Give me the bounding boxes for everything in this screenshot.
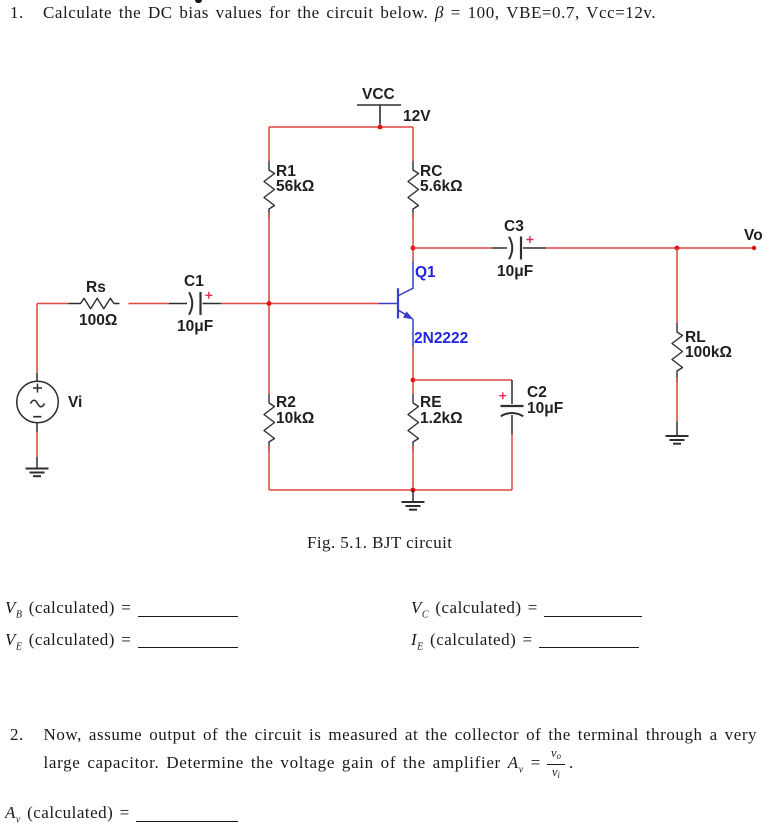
designator Q1	[415, 264, 436, 281]
wire source to Rs	[37, 303, 69, 305]
node VCC junction	[378, 125, 383, 130]
svg-text:RE: RE	[420, 394, 442, 411]
svg-text:100kΩ: 100kΩ	[685, 344, 732, 361]
designator RL	[685, 329, 706, 346]
node bottom junction	[411, 488, 416, 493]
value 100Ω	[79, 312, 117, 329]
svg-text:Rs: Rs	[86, 279, 106, 296]
svg-text:Q1: Q1	[415, 264, 436, 281]
transistor Q1	[379, 261, 413, 347]
value 100kΩ	[685, 344, 732, 361]
value 5.6kΩ	[420, 178, 463, 195]
capacitor C1	[169, 292, 221, 315]
answer row 2 left	[5, 630, 238, 657]
wire bottom rail	[269, 489, 512, 491]
power symbol VCC	[357, 105, 401, 124]
wire output rail right	[546, 247, 754, 249]
ground RL	[666, 422, 689, 444]
resistor R2	[264, 394, 275, 451]
wire output rail left	[413, 247, 492, 249]
resistor Rs	[69, 298, 120, 308]
question 2 text line 2	[44, 753, 542, 780]
node RL junction	[675, 246, 680, 251]
capacitor C3	[492, 237, 546, 260]
svg-text:10μF: 10μF	[497, 263, 533, 280]
polarity + of C3	[527, 236, 534, 243]
wire VCC drop	[379, 124, 381, 127]
wire RC to collector	[412, 213, 414, 261]
svg-text:56kΩ: 56kΩ	[276, 178, 314, 195]
resistor R1	[264, 161, 275, 218]
wire RL upper	[676, 248, 678, 323]
resistor RL	[672, 323, 683, 383]
designator C1	[184, 273, 204, 290]
wire left branch upper	[268, 127, 270, 161]
svg-text:Vi: Vi	[68, 394, 82, 411]
wire left branch lower	[268, 446, 270, 490]
question 2 text line 1	[10, 725, 24, 745]
node Vo terminal	[752, 246, 756, 250]
designator Rs	[86, 279, 106, 296]
designator RE	[420, 394, 442, 411]
designator C2	[527, 384, 547, 401]
svg-text:12V: 12V	[403, 108, 431, 125]
node emitter junction	[411, 378, 416, 383]
capacitor C2	[501, 380, 524, 434]
value 10µF of C1	[177, 318, 213, 335]
designator C3	[504, 218, 524, 235]
wire Rs to C1	[129, 303, 170, 305]
caption	[307, 533, 452, 553]
value 10kΩ	[276, 410, 314, 427]
svg-text:R2: R2	[276, 394, 296, 411]
value 56kΩ	[276, 178, 314, 195]
wire Vi lower	[36, 432, 38, 457]
question 1 text	[10, 3, 24, 23]
svg-text:VCC: VCC	[362, 86, 395, 103]
ground Vi	[26, 457, 49, 476]
polarity + of C1	[205, 292, 212, 299]
answer Av	[5, 803, 238, 830]
value 10µF of C3	[497, 263, 533, 280]
answer row 1 right	[411, 598, 642, 625]
svg-text:10μF: 10μF	[177, 318, 213, 335]
value 10µF of C2	[527, 400, 563, 417]
designator R2	[276, 394, 296, 411]
ground bottom	[402, 490, 425, 510]
svg-text:10μF: 10μF	[527, 400, 563, 417]
svg-text:5.6kΩ: 5.6kΩ	[420, 178, 463, 195]
wire emitter rail	[413, 379, 512, 381]
cut-off heading remnant	[195, 0, 202, 3]
svg-text:C2: C2	[527, 384, 547, 401]
wire RL lower	[676, 378, 678, 422]
wire emitter down	[412, 347, 414, 394]
wire C2 lower	[511, 434, 513, 490]
wire Vi up	[36, 304, 38, 374]
node base junction	[267, 301, 272, 306]
value label 12V	[403, 108, 431, 125]
designator RC	[420, 163, 442, 180]
resistor RC	[408, 161, 419, 218]
svg-text:C3: C3	[504, 218, 524, 235]
svg-text:C1: C1	[184, 273, 204, 290]
net label VCC	[362, 86, 395, 103]
wire C1 to base	[221, 303, 379, 305]
designator R1	[276, 163, 296, 180]
answer row 1 left	[5, 598, 238, 625]
svg-text:1.2kΩ: 1.2kΩ	[420, 410, 463, 427]
fraction vo/vi	[547, 746, 565, 783]
answer row 2 right	[411, 630, 639, 657]
value 2N2222	[414, 330, 468, 347]
polarity + of C2	[499, 392, 506, 399]
source Vi	[17, 373, 59, 432]
wire left branch middle	[268, 213, 270, 394]
value 1.2kΩ	[420, 410, 463, 427]
wire RE lower	[412, 446, 414, 490]
svg-text:2N2222: 2N2222	[414, 330, 468, 347]
node collector junction	[411, 246, 416, 251]
resistor RE	[408, 394, 419, 451]
svg-text:Vo: Vo	[744, 227, 763, 244]
wire top rail	[269, 126, 413, 128]
svg-text:10kΩ: 10kΩ	[276, 410, 314, 427]
net label Vi	[68, 394, 82, 411]
svg-text:100Ω: 100Ω	[79, 312, 117, 329]
wire RC branch upper	[412, 127, 414, 161]
net label Vo	[744, 227, 763, 244]
